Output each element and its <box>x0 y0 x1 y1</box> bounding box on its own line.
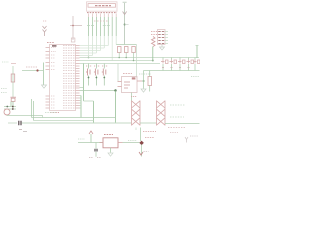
LED row cell 1 <box>161 60 168 64</box>
text above rails right <box>45 112 57 114</box>
text small bottom right of JP2 <box>170 132 178 134</box>
resistor R8 left <box>11 74 15 82</box>
LED row cell 3 <box>178 60 185 64</box>
wire left rail y70.5 <box>22 70 44 72</box>
ground far bottom right <box>185 136 198 143</box>
text right of JP2 row3 <box>168 127 186 129</box>
wire +5V vertical <box>141 128 142 157</box>
text label above supply <box>43 20 47 22</box>
SG1 pins <box>118 81 143 87</box>
wire rail bus1 y57.5 <box>80 57 200 59</box>
connector LCD1 inner display bar <box>88 4 116 8</box>
supply arrow bottom center <box>89 131 93 143</box>
transistor T1 circle <box>4 109 10 115</box>
IC1 microcontroller body <box>50 45 76 111</box>
component at crystal net bottom <box>71 38 75 42</box>
junction dots left rails <box>6 106 8 108</box>
junction diamond +5V node <box>139 141 144 146</box>
resistor R2 <box>125 47 129 53</box>
IC1 value text below <box>50 112 59 114</box>
LED row cell 4 <box>187 60 194 64</box>
connector LCD1 pin number row <box>87 12 117 14</box>
wires below resistors <box>119 53 133 61</box>
resistor R6 label text right top <box>151 32 159 35</box>
IC1 left pin stubs <box>46 48 50 109</box>
text above left vertical <box>11 63 16 65</box>
text rows right of regulator <box>143 132 156 138</box>
ground below IC5 <box>108 153 113 156</box>
wires transistor verticals <box>89 64 105 86</box>
wire from T1 to bus corner <box>7 115 43 117</box>
wire rail end down <box>136 45 138 78</box>
wire bundle verticals left <box>32 99 34 121</box>
D1 small mark below <box>19 129 22 131</box>
wire x83 vertical and corner <box>81 64 94 123</box>
wire IC5 out <box>123 142 140 144</box>
junction component on left rail <box>36 69 38 71</box>
text below arrow <box>144 151 149 153</box>
text above LED row <box>162 67 190 69</box>
transistor T4 cell C <box>102 69 106 76</box>
jumper block JP1 <box>132 101 141 126</box>
wire rail to SG1 pin <box>117 64 119 82</box>
IC1 right pin stubs <box>76 46 80 109</box>
junction right of SG1 <box>142 80 144 82</box>
junction dot LCD wire on rail <box>88 57 90 59</box>
jumper block JP2 <box>157 101 166 126</box>
wire left rails y106.5 y109 <box>4 102 16 110</box>
text right column small <box>191 76 199 78</box>
connector LCD1 pin stubs <box>89 14 117 18</box>
text at left rail <box>2 61 9 63</box>
IC1 pin1 dark label <box>52 45 57 47</box>
C5 labels <box>89 157 101 159</box>
net label text on LCD wires <box>94 20 108 22</box>
ground below SV1 <box>160 45 165 51</box>
connector LCD1 inner text <box>95 5 111 7</box>
transistor T2 cell A <box>86 69 90 76</box>
junction dots below transistors <box>88 77 90 79</box>
wire IC to junction y90.5 <box>80 90 116 92</box>
JP1 bottom stub <box>135 128 137 131</box>
wire R6 down <box>152 47 154 61</box>
wire right tall vertical <box>196 46 198 59</box>
connector SV1 right pin ticks <box>165 32 168 44</box>
connector SV1 right header <box>158 30 166 45</box>
junction dots on rails <box>118 57 120 59</box>
junction R6 rail <box>152 60 154 62</box>
resistor R3 <box>132 47 136 53</box>
junction on vertical line <box>124 24 126 26</box>
speaker SG1 box <box>122 77 138 93</box>
text right of JP2 row2 <box>170 116 184 118</box>
wire resistor VCC rail <box>116 44 136 46</box>
wire supply net right of connector <box>123 2 127 44</box>
tick top of right vertical <box>196 45 199 47</box>
connector LCD1 (top header) outer box <box>87 2 118 11</box>
supply symbol above IC left <box>43 26 47 36</box>
SG1 label <box>123 73 132 75</box>
text small left bottom <box>23 131 27 133</box>
regulator IC5 box <box>103 138 118 148</box>
wire into D1 <box>8 122 17 124</box>
SG1 bottom wire to jumper <box>131 93 133 101</box>
wire IC left ground net <box>43 63 45 86</box>
wire LCD data staircase verticals upper <box>89 17 117 36</box>
IC5 ground leg <box>110 148 112 153</box>
resistor R1 <box>118 47 122 53</box>
transistor T3 cell B <box>94 69 98 76</box>
wires LED row verticals <box>163 58 189 71</box>
resistor R6 zigzag <box>152 37 156 47</box>
wire stub at junction <box>125 24 129 26</box>
connector SV1 pin bars <box>158 32 164 44</box>
wire LCD data staircase horizontal runs <box>80 46 109 56</box>
ground below SG1 junction <box>141 89 146 92</box>
wire bottom rail y117.5 <box>32 117 116 119</box>
wire from JP2 right <box>165 123 200 125</box>
wire regulator input <box>78 142 103 144</box>
LED row cell 2 <box>170 60 177 64</box>
IC1 name text <box>47 42 54 44</box>
ground symbol below IC left <box>42 85 47 88</box>
wire right rail y70.5 <box>144 70 200 72</box>
LED row cell 5 <box>194 60 200 64</box>
wires IC lower right pins <box>80 96 82 109</box>
capacitor C5 <box>95 149 97 152</box>
crystal Q4 left <box>10 97 16 101</box>
JP1 label <box>131 96 137 98</box>
diode D1 dark component <box>19 121 21 126</box>
IC5 label <box>104 134 113 136</box>
wire SG1 junction down <box>143 81 145 89</box>
SG1 inner detail <box>124 77 135 88</box>
junction crosses on LCD wires <box>87 25 110 27</box>
wires LED cell 5 <box>194 58 196 71</box>
wires R7 <box>149 71 151 92</box>
supply arrow on vertical line <box>123 12 127 15</box>
junction dot x115.5 <box>114 89 116 91</box>
wire LCD data staircase verticals lower <box>89 36 117 61</box>
wire between jumper columns <box>140 122 157 124</box>
text above SG1 junction <box>139 73 151 75</box>
C5 leads <box>95 143 97 157</box>
text above left rail <box>26 66 37 68</box>
wire bottom rail y123 <box>22 122 132 124</box>
arrow bottom of +5V line <box>139 152 143 155</box>
wire rail bus2 y60.5 <box>80 60 153 62</box>
wire rail bus3 y63.5 <box>80 63 161 65</box>
wire left x13 vertical <box>12 66 14 97</box>
resistor R7 vertical right of SG1 <box>148 77 152 86</box>
text left of input wire <box>78 138 85 140</box>
text +5V left of junction <box>128 140 137 142</box>
text right of JP2 row1 <box>170 104 185 106</box>
wire bottom rail y120.5 <box>34 120 94 122</box>
text above transistor row <box>86 65 108 67</box>
IC1 pin name text columns <box>51 46 75 109</box>
IC5 pins <box>100 142 123 144</box>
wire SG1 junction up to rail <box>143 71 145 82</box>
wire x115.5 down <box>115 91 117 123</box>
text left edge pins <box>1 89 7 93</box>
junction crystal net <box>72 25 74 27</box>
wire crystal net at IC top <box>70 16 82 40</box>
